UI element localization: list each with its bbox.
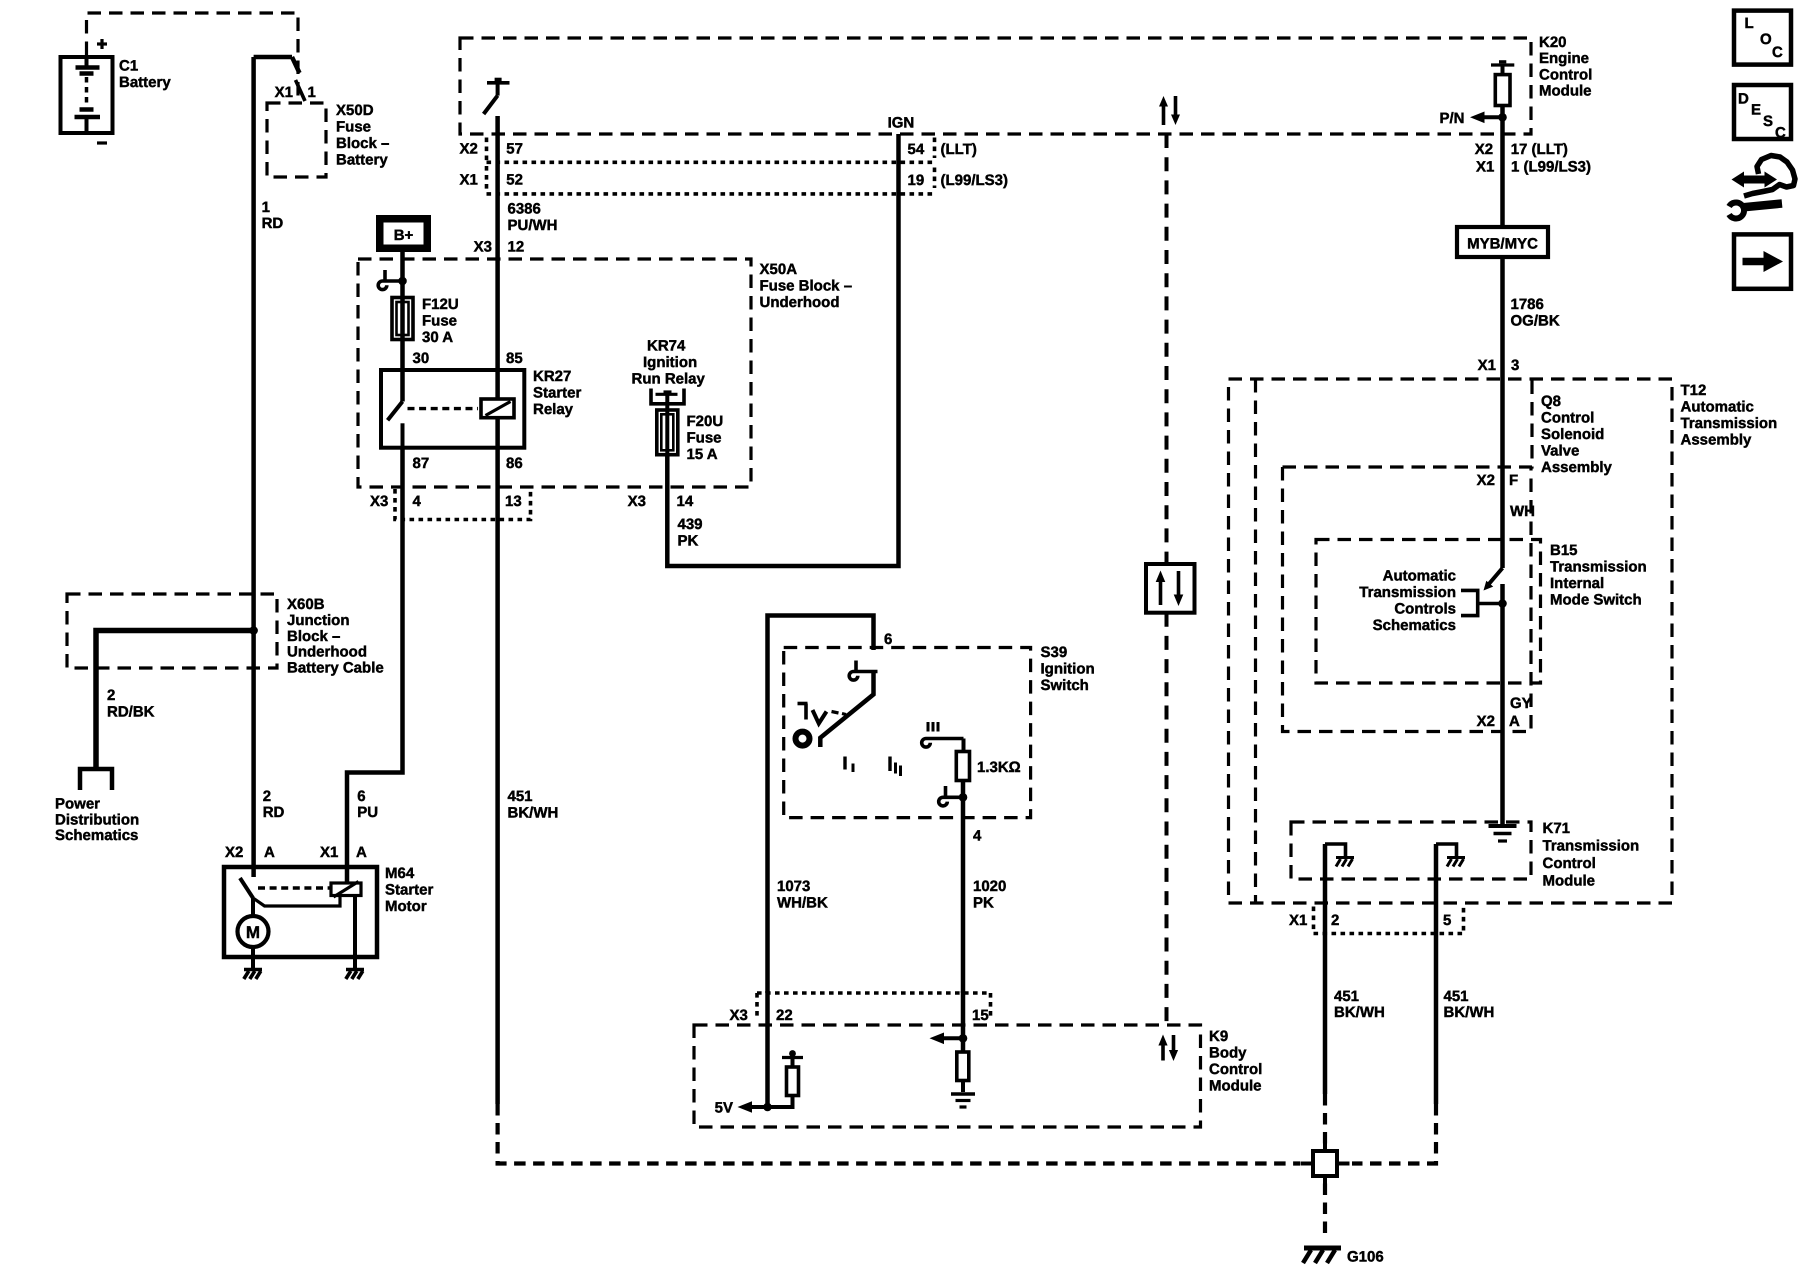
svg-text:Control: Control — [1539, 67, 1592, 84]
run contact hook — [922, 739, 964, 752]
svg-text:X2: X2 — [1477, 713, 1495, 730]
svg-text:O: O — [1760, 31, 1772, 48]
wire switch to motor and solenoid — [253, 896, 340, 917]
svg-text:C: C — [1775, 125, 1786, 142]
switch position indicator arrow — [798, 704, 847, 724]
svg-text:85: 85 — [506, 350, 523, 367]
svg-text:X1: X1 — [460, 172, 478, 189]
svg-text:2: 2 — [107, 687, 115, 704]
svg-text:Control: Control — [1541, 410, 1594, 427]
svg-text:KR27: KR27 — [533, 368, 571, 385]
switch position mark I — [845, 757, 853, 773]
svg-text:Fuse: Fuse — [422, 313, 457, 330]
svg-text:X60B: X60B — [287, 596, 325, 613]
transmission internal mode switch B15 — [1316, 540, 1647, 684]
starter relay KR27 — [381, 368, 582, 448]
svg-text:6: 6 — [357, 788, 365, 805]
wire 15 inside K9 — [961, 991, 966, 1052]
wire 1073 WH/BK (S39 pin 6 to BCM 22) — [768, 616, 874, 994]
pin X1 A of M64 — [320, 844, 367, 861]
ground (K9 internal) — [951, 1094, 975, 1107]
svg-text:A: A — [264, 844, 275, 861]
pin X2 A of M64 — [225, 844, 275, 861]
svg-text:L: L — [1745, 15, 1754, 32]
resistor 1.3Kohm — [956, 752, 1020, 781]
svg-text:Battery: Battery — [336, 152, 388, 169]
svg-text:X3: X3 — [474, 239, 492, 256]
svg-text:Underhood: Underhood — [760, 294, 840, 311]
ignition switch S39 — [784, 644, 1095, 818]
serial data arrows in ECM — [1159, 96, 1180, 125]
svg-text:439: 439 — [678, 516, 703, 533]
serial data dashed line — [1165, 134, 1169, 564]
icon DESC — [1734, 85, 1791, 142]
wire battery to X50D — [254, 57, 300, 73]
control solenoid valve assembly Q8 — [1283, 379, 1613, 476]
svg-text:Junction: Junction — [287, 612, 350, 629]
svg-text:A: A — [356, 844, 367, 861]
svg-text:Engine: Engine — [1539, 50, 1589, 67]
svg-text:RD: RD — [263, 804, 285, 821]
svg-text:OG/BK: OG/BK — [1511, 313, 1560, 330]
svg-text:57: 57 — [506, 141, 523, 158]
svg-text:451: 451 — [508, 788, 533, 805]
fuse block X50D — [267, 102, 389, 177]
svg-text:Automatic: Automatic — [1383, 568, 1456, 585]
svg-text:B15: B15 — [1550, 542, 1578, 559]
svg-text:K9: K9 — [1209, 1028, 1228, 1045]
svg-text:Solenoid: Solenoid — [1541, 426, 1604, 443]
svg-text:22: 22 — [776, 1007, 793, 1024]
pin X2 F — [1477, 472, 1519, 489]
svg-text:52: 52 — [506, 172, 523, 189]
ignition run relay KR74 feed — [632, 338, 706, 411]
svg-text:Transmission: Transmission — [1550, 559, 1647, 576]
engine control module K20 — [460, 34, 1592, 134]
svg-text:86: 86 — [506, 455, 523, 472]
svg-text:19: 19 — [908, 172, 925, 189]
wire 451 BK/WH left — [1325, 935, 1385, 1095]
wire 1020 PK (S39 pin 4 to BCM 15) — [963, 781, 1006, 994]
svg-text:451: 451 — [1334, 988, 1359, 1005]
svg-text:KR74: KR74 — [647, 338, 686, 355]
switch pivot — [796, 732, 810, 746]
svg-text:Control: Control — [1543, 855, 1596, 872]
svg-text:MYB/MYC: MYB/MYC — [1467, 236, 1538, 253]
svg-text:X3: X3 — [370, 493, 388, 510]
svg-text:Control: Control — [1209, 1061, 1262, 1078]
switch position mark II — [890, 757, 901, 777]
svg-text:X2: X2 — [1475, 141, 1493, 158]
wire 22 inside K9 — [765, 991, 770, 1107]
svg-text:D: D — [1738, 91, 1749, 108]
ECM P/N pull-up resistor — [1491, 62, 1514, 134]
splice hook below resistor — [939, 786, 967, 806]
svg-text:1020: 1020 — [973, 878, 1006, 895]
svg-text:13: 13 — [505, 493, 522, 510]
svg-text:Block –: Block – — [287, 628, 340, 645]
ground (M64 motor) — [244, 970, 262, 980]
svg-text:E: E — [1751, 102, 1761, 119]
wire 451 BK/WH (relay 86 down) — [498, 418, 559, 1104]
serial data gateway box — [1146, 564, 1195, 613]
node signal tap — [930, 1033, 968, 1045]
svg-text:Module: Module — [1209, 1078, 1262, 1095]
svg-text:Starter: Starter — [533, 385, 582, 402]
svg-text:Battery Cable: Battery Cable — [287, 660, 384, 677]
pin 19 (L99/LS3) — [908, 168, 1009, 190]
connector dotted rows — [487, 138, 935, 194]
svg-text:Transmission: Transmission — [1543, 838, 1640, 855]
junction block X60B — [67, 594, 384, 677]
ground G106 — [1303, 1248, 1384, 1266]
node junction on wire 1 — [249, 626, 258, 635]
svg-text:PU/WH: PU/WH — [508, 217, 558, 234]
relay contact blade — [388, 402, 478, 448]
svg-text:X3: X3 — [730, 1007, 748, 1024]
pin X2 A — [1477, 713, 1520, 730]
svg-text:C: C — [1772, 44, 1783, 61]
connector X3 pins 4 and 13 of X50A — [370, 489, 531, 520]
svg-text:5: 5 — [1443, 912, 1451, 929]
switch position mark III — [928, 722, 938, 732]
svg-text:BK/WH: BK/WH — [508, 805, 559, 822]
wire 6 PU from relay 87 to M64 X1 A — [347, 448, 403, 883]
svg-text:BK/WH: BK/WH — [1334, 1004, 1385, 1021]
svg-text:Schematics: Schematics — [1373, 617, 1456, 634]
splice pack G106 junction — [1301, 1144, 1350, 1184]
switch contact in M64 — [240, 867, 331, 898]
svg-text:Q8: Q8 — [1541, 393, 1561, 410]
svg-text:2: 2 — [1331, 912, 1339, 929]
relay coil KR27 — [481, 399, 514, 418]
svg-text:M: M — [246, 923, 260, 942]
svg-text:4: 4 — [413, 493, 422, 510]
ground distribution dashed runs — [498, 1094, 1436, 1164]
connector X1 pin 1 of X50D — [275, 80, 316, 101]
svg-text:15: 15 — [972, 1007, 989, 1024]
node splice below resistor — [959, 793, 968, 802]
battery C1 — [61, 39, 172, 143]
svg-text:Relay: Relay — [533, 401, 574, 418]
svg-text:WH/BK: WH/BK — [777, 895, 828, 912]
svg-text:15 A: 15 A — [687, 446, 718, 463]
switch blade S39 — [820, 672, 873, 748]
svg-text:PK: PK — [678, 533, 699, 550]
svg-text:X2: X2 — [225, 844, 243, 861]
wire to TCM ground — [1500, 732, 1505, 825]
serial data dashed line lower — [1165, 613, 1169, 1025]
wire 6386 PU/WH (ECM 57/52 to relay 85) — [498, 116, 558, 399]
pull-up resistor in K9 — [768, 1050, 804, 1107]
svg-text:6386: 6386 — [508, 201, 541, 218]
svg-text:6: 6 — [884, 631, 892, 648]
connector X1 pins 2 and 5 — [1289, 907, 1464, 934]
svg-text:P/N: P/N — [1439, 110, 1464, 127]
svg-text:X2: X2 — [1477, 472, 1495, 489]
connector to power distribution schematics — [55, 769, 139, 844]
wire 2 RD/BK (battery cable) — [96, 631, 254, 770]
svg-text:RD/BK: RD/BK — [107, 704, 155, 721]
svg-text:Assembly: Assembly — [1541, 459, 1613, 476]
svg-text:Battery: Battery — [119, 74, 171, 91]
node at 5V junction — [763, 1103, 772, 1112]
icon LOC — [1734, 11, 1791, 65]
svg-text:30 A: 30 A — [422, 329, 453, 346]
node mode switch tap — [1498, 599, 1507, 608]
svg-text:451: 451 — [1444, 988, 1469, 1005]
svg-text:54: 54 — [908, 141, 925, 158]
svg-text:F12U: F12U — [422, 296, 459, 313]
svg-text:RD: RD — [262, 215, 284, 232]
svg-text:BK/WH: BK/WH — [1444, 1004, 1495, 1021]
icon forward arrow — [1734, 234, 1791, 288]
svg-text:PK: PK — [973, 895, 994, 912]
svg-text:X1: X1 — [1289, 912, 1307, 929]
svg-text:17 (LLT): 17 (LLT) — [1511, 141, 1568, 158]
pin X1 3 of T12 — [1478, 357, 1520, 374]
node P/N — [1439, 110, 1506, 127]
svg-text:Transmission: Transmission — [1359, 584, 1456, 601]
svg-text:Body: Body — [1209, 1045, 1247, 1062]
connector X2 pin 57 — [460, 141, 523, 158]
svg-text:Controls: Controls — [1394, 601, 1456, 618]
connector X1 pin 1 (L99/LS3) — [1476, 159, 1591, 176]
svg-text:X50D: X50D — [336, 102, 374, 119]
svg-text:Motor: Motor — [385, 898, 427, 915]
node splice at B+ feed — [398, 277, 407, 286]
svg-text:Assembly: Assembly — [1681, 432, 1753, 449]
svg-text:K20: K20 — [1539, 34, 1567, 51]
svg-text:IGN: IGN — [888, 115, 915, 132]
wire 439 PK to IGN — [667, 134, 898, 566]
svg-text:S: S — [1763, 113, 1773, 130]
motor M — [238, 916, 269, 947]
svg-text:Ignition: Ignition — [643, 354, 697, 371]
wire 1 RD — [254, 57, 284, 867]
fuse block X50A — [358, 259, 852, 487]
wire motor to ground — [251, 947, 255, 968]
pin X3 14 of X50A — [628, 493, 694, 510]
svg-text:T12: T12 — [1681, 382, 1707, 399]
body control module K9 connector row — [730, 993, 992, 1024]
svg-text:X1: X1 — [320, 844, 338, 861]
reference bracket to ATC schematics — [1359, 568, 1502, 635]
svg-text:F: F — [1509, 472, 1518, 489]
svg-text:3: 3 — [1511, 357, 1519, 374]
svg-text:4: 4 — [973, 828, 982, 845]
svg-text:5V: 5V — [715, 1100, 733, 1117]
wire 1786 OG/BK — [1503, 134, 1560, 568]
svg-text:1073: 1073 — [777, 878, 810, 895]
svg-text:G106: G106 — [1347, 1249, 1384, 1266]
ground (earth) at K71 — [1489, 826, 1517, 841]
ground (M64 solenoid) — [346, 970, 364, 980]
serial data arrows in K9 — [1158, 1035, 1178, 1062]
wire 451 BK/WH right — [1436, 935, 1494, 1105]
svg-text:(L99/LS3): (L99/LS3) — [941, 172, 1009, 189]
svg-text:(LLT): (LLT) — [941, 141, 977, 158]
mode switch wiper blade — [1484, 568, 1503, 591]
svg-text:1: 1 — [308, 84, 316, 101]
svg-text:Block –: Block – — [336, 135, 389, 152]
solenoid valve internal harness box — [1283, 467, 1532, 732]
svg-text:Fuse: Fuse — [336, 119, 371, 136]
svg-text:Module: Module — [1539, 83, 1592, 100]
svg-text:Mode Switch: Mode Switch — [1550, 592, 1642, 609]
wire GY lower contact — [1503, 584, 1532, 732]
svg-text:30: 30 — [413, 350, 430, 367]
svg-text:1 (L99/LS3): 1 (L99/LS3) — [1511, 159, 1591, 176]
svg-text:Distribution: Distribution — [55, 811, 139, 828]
pin 54 (LLT) — [908, 138, 977, 159]
svg-text:PU: PU — [357, 804, 378, 821]
svg-text:Run Relay: Run Relay — [632, 371, 706, 388]
pull-down resistor in K9 — [957, 1052, 969, 1092]
MYB/MYC tag — [1457, 227, 1548, 257]
ECM driver output (6386) — [484, 80, 510, 115]
fuse F12U 30 A — [392, 296, 459, 346]
svg-text:B+: B+ — [394, 227, 414, 244]
svg-text:Switch: Switch — [1041, 677, 1089, 694]
svg-text:14: 14 — [677, 493, 694, 510]
svg-text:Underhood: Underhood — [287, 644, 367, 661]
wire solenoid to ground — [353, 896, 357, 969]
svg-text:X1: X1 — [1478, 357, 1496, 374]
svg-text:87: 87 — [413, 455, 430, 472]
svg-text:Fuse Block –: Fuse Block – — [760, 278, 853, 295]
svg-text:Internal: Internal — [1550, 575, 1604, 592]
splice hook on pin 6 wire — [849, 661, 877, 681]
solenoid coil in M64 — [331, 882, 361, 898]
svg-text:Starter: Starter — [385, 882, 434, 899]
transmission control module K71 — [1291, 820, 1639, 890]
svg-text:A: A — [1509, 713, 1520, 730]
svg-text:2: 2 — [263, 788, 271, 805]
body control module K9 — [694, 1025, 1262, 1127]
svg-text:1: 1 — [262, 199, 270, 216]
connector X2 pin 17 (LLT) — [1475, 141, 1568, 158]
TCM ground clip right — [1436, 844, 1465, 935]
wire 2 RD label — [263, 788, 285, 821]
svg-text:Schematics: Schematics — [55, 827, 138, 844]
svg-text:X3: X3 — [628, 493, 646, 510]
svg-text:Ignition: Ignition — [1041, 661, 1095, 678]
svg-text:Fuse: Fuse — [687, 430, 722, 447]
inner assembly boundary — [1254, 379, 1257, 903]
dashed lead to G106 — [1323, 1184, 1327, 1241]
splice hook symbol — [378, 270, 406, 290]
svg-text:12: 12 — [508, 239, 525, 256]
5V reference output — [715, 1100, 768, 1117]
svg-text:1786: 1786 — [1511, 296, 1544, 313]
svg-text:X50A: X50A — [760, 261, 798, 278]
svg-text:C1: C1 — [119, 58, 138, 75]
svg-text:Automatic: Automatic — [1681, 399, 1754, 416]
svg-text:WH: WH — [1510, 503, 1535, 520]
svg-text:M64: M64 — [385, 865, 415, 882]
wire B+ to F12U — [400, 252, 405, 402]
svg-text:F20U: F20U — [687, 413, 724, 430]
svg-text:Module: Module — [1543, 873, 1596, 890]
fuse F20U 15 A — [657, 410, 723, 463]
svg-text:K71: K71 — [1543, 820, 1571, 837]
svg-text:X2: X2 — [460, 141, 478, 158]
connector X1 pin 52 — [460, 172, 523, 189]
wire battery positive cable (dashed) — [87, 13, 299, 101]
svg-text:1.3KΩ: 1.3KΩ — [977, 759, 1021, 776]
starter motor M64 — [224, 865, 434, 957]
svg-text:Power: Power — [55, 796, 100, 813]
svg-text:S39: S39 — [1041, 644, 1068, 661]
TCM ground clip left — [1325, 844, 1354, 935]
svg-text:GY: GY — [1510, 695, 1532, 712]
wire 6 PU label — [357, 788, 378, 821]
pin X3 12 of X50A — [474, 239, 525, 256]
B+ terminal — [376, 215, 431, 252]
svg-text:Valve: Valve — [1541, 443, 1579, 460]
svg-text:X1: X1 — [1476, 159, 1494, 176]
svg-text:Transmission: Transmission — [1681, 415, 1778, 432]
automatic transmission assembly T12 — [1229, 379, 1778, 903]
svg-text:X1: X1 — [275, 84, 293, 101]
icon vehicle data wrench — [1729, 156, 1795, 219]
